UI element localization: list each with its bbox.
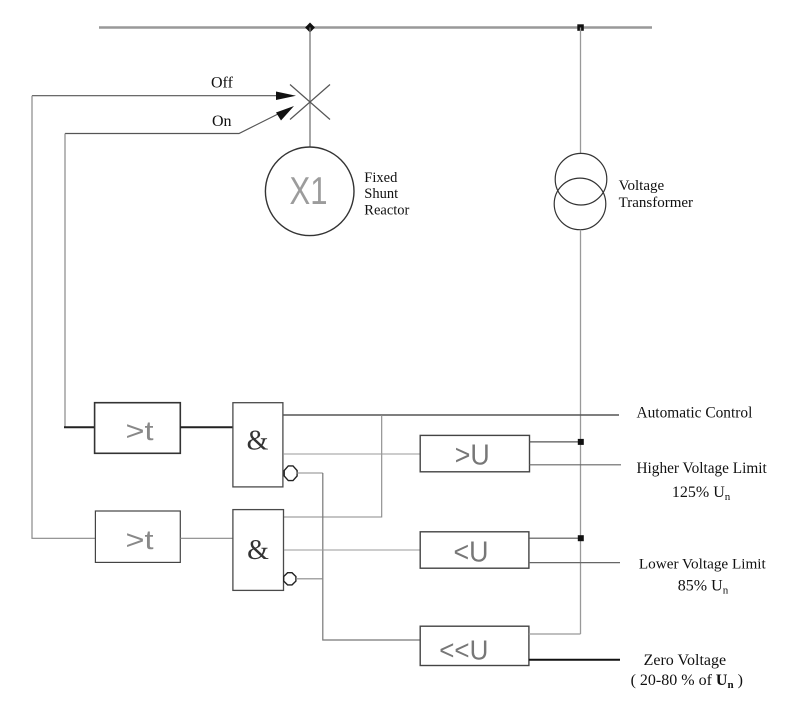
relay block >U (overvoltage) <box>420 435 529 471</box>
svg-text:Automatic Control: Automatic Control <box>637 404 753 421</box>
value label ( 20-80 % of Un ) <box>631 672 743 691</box>
breaker X (disconnector) <box>290 85 330 120</box>
svg-text:85% Un: 85% Un <box>678 578 729 597</box>
op AND gate U1 (upper &) <box>233 403 283 487</box>
wire (On command to breaker) <box>65 106 294 134</box>
reactor X1 (fixed shunt reactor) <box>265 147 354 236</box>
wire (upper timer output to AND1) <box>180 426 233 428</box>
svg-text:<U: <U <box>454 537 489 569</box>
junction (<U sense on VT net) <box>578 535 584 541</box>
wire (On net, inner vertical down to upper timer) <box>64 134 95 428</box>
relay block <<U (zero voltage) <box>420 626 529 665</box>
svg-text:Reactor: Reactor <box>364 203 409 219</box>
junction (bus to VT feeder) <box>577 24 584 31</box>
label Zero Voltage <box>644 652 727 669</box>
voltage transformer T1 <box>554 153 607 229</box>
svg-text:Off: Off <box>211 75 234 92</box>
wire (lower timer output to AND2) <box>180 537 233 539</box>
wire (AND1 bubble to zero-voltage net) <box>297 472 323 474</box>
relay block <U (undervoltage) <box>420 532 529 569</box>
wire (Off command to breaker) <box>32 92 296 101</box>
wire (<U output, Lower Voltage Limit stub) <box>529 562 620 564</box>
svg-text:Shunt: Shunt <box>364 186 398 202</box>
wire (<<U output, Zero Voltage stub) <box>529 659 620 661</box>
wire (>U sense input from VT net) <box>530 441 581 443</box>
wire (>U output, Higher Voltage Limit stub) <box>530 464 622 466</box>
wire (<U sense input from VT net) <box>529 537 581 539</box>
wire (AND2 bubble to zero-voltage net) <box>296 578 323 580</box>
timer block >t (lower, Off delay) <box>95 511 180 562</box>
svg-text:&: & <box>247 426 269 457</box>
timer block >t (upper, On delay) <box>95 403 181 454</box>
label Lower Voltage Limit <box>639 555 767 572</box>
wire (Off net, left vertical down to lower timer) <box>32 96 95 539</box>
junction (>U sense on VT net) <box>578 439 584 445</box>
wire (<U output to AND2 input) <box>284 549 420 551</box>
label Automatic Control <box>637 404 753 421</box>
wire (zero-voltage net vertical to <<U) <box>323 473 422 640</box>
svg-text:Lower Voltage Limit: Lower Voltage Limit <box>639 555 767 572</box>
wire (<<U sense input from VT net) <box>529 633 581 635</box>
svg-text:Transformer: Transformer <box>619 195 693 211</box>
label Higher Voltage Limit <box>637 460 768 477</box>
label On <box>212 113 232 130</box>
value label 85% Un <box>678 578 729 597</box>
wire (VT secondary net, vertical measuring bus) <box>580 230 582 634</box>
svg-text:Higher Voltage Limit: Higher Voltage Limit <box>637 460 768 477</box>
bus wire (top busbar) <box>99 26 652 29</box>
wire (AND1 output, Automatic Control net) <box>283 414 619 416</box>
svg-text:Fixed: Fixed <box>364 170 398 186</box>
wire (>U output to AND1 input) <box>284 453 420 455</box>
svg-text:>U: >U <box>455 440 490 472</box>
value label 125% Un <box>672 484 731 503</box>
svg-text:125% Un: 125% Un <box>672 484 731 503</box>
svg-text:>t: >t <box>126 525 155 555</box>
svg-text:X1: X1 <box>290 170 328 213</box>
junction (bus to reactor feeder) <box>305 23 315 33</box>
svg-text:&: & <box>247 535 269 566</box>
svg-text:On: On <box>212 113 232 130</box>
wire (VT feeder upper, bus to transformer) <box>580 28 582 154</box>
svg-text:( 20-80 % of Un ): ( 20-80 % of Un ) <box>631 672 743 691</box>
wire (reactor feeder, bus to reactor) <box>309 28 311 148</box>
svg-text:Zero Voltage: Zero Voltage <box>644 652 727 669</box>
inverted input bubble (AND1) <box>284 466 297 481</box>
svg-text:>t: >t <box>126 416 155 446</box>
wire (Automatic Control branch down to AND2) <box>284 415 382 517</box>
label Voltage Transformer <box>619 178 693 211</box>
label Fixed Shunt Reactor <box>364 170 409 219</box>
inverted input bubble (AND2) <box>284 573 296 585</box>
label Off <box>211 75 234 92</box>
svg-text:Voltage: Voltage <box>619 178 665 194</box>
svg-text:<<U: <<U <box>439 635 488 666</box>
op AND gate U2 (lower &) <box>233 510 284 591</box>
